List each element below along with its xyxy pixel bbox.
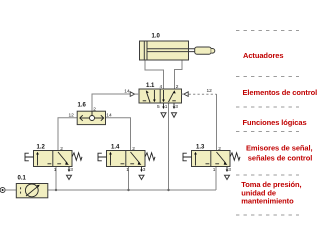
svg-text:1.2: 1.2 — [37, 144, 46, 150]
svg-text:1.1: 1.1 — [146, 83, 155, 89]
svg-text:3: 3 — [143, 167, 146, 173]
svg-text:Elementos de control: Elementos de control — [243, 88, 318, 97]
svg-text:3: 3 — [70, 167, 73, 173]
wire valve 1.4 port 1 down to supply line — [128, 167, 130, 191]
valve 1.3 (3/2 way, pushbutton) — [183, 144, 240, 179]
service unit rect — [16, 184, 48, 198]
wire cylinder left port to valve 1.1 port 4 — [145, 60, 164, 90]
valve 1.1 (5/2 way) — [124, 83, 212, 117]
svg-text:3: 3 — [228, 167, 231, 173]
valve 1.2 (3/2 way, pushbutton) — [25, 144, 82, 179]
right box interior — [169, 92, 175, 102]
svg-text:1.4: 1.4 — [111, 144, 120, 150]
port 3 exhaust — [68, 167, 70, 171]
left box arrow — [37, 154, 39, 166]
left box interior — [146, 92, 150, 103]
red zone labels — [241, 51, 317, 205]
svg-text:Actuadores: Actuadores — [243, 51, 283, 60]
supply line from unit 0.1 — [48, 189, 216, 191]
svg-text:12: 12 — [69, 113, 75, 119]
wire valve 1.6 right port to valve 1.4 port 2 — [105, 118, 131, 151]
svg-text:1: 1 — [126, 167, 129, 173]
svg-text:14: 14 — [106, 113, 112, 119]
wire valve 1.6 left port to valve 1.2 port 2 — [58, 118, 78, 151]
wire valve 1.6 top to pilot 14 of valve 1.1 — [92, 94, 130, 112]
svg-text:14: 14 — [124, 89, 130, 95]
two-pressure valve 1.6 — [69, 103, 112, 125]
svg-text:3: 3 — [175, 104, 178, 110]
svg-text:Emisores de señal,: Emisores de señal, — [246, 144, 313, 153]
valve 1.4 (3/2 way, pushbutton) — [98, 144, 155, 179]
wire cylinder right port to valve 1.1 port 2 — [175, 60, 183, 90]
svg-text:1: 1 — [213, 167, 216, 173]
wire valve 1.2 port 1 down to supply line — [55, 167, 57, 191]
svg-text:mantenimiento: mantenimiento — [241, 197, 294, 206]
svg-text:0.1: 0.1 — [18, 176, 27, 182]
svg-text:1.6: 1.6 — [78, 103, 87, 109]
wire down to valve 1.3 port 2 — [216, 94, 218, 151]
pushbutton actuator — [25, 153, 34, 161]
air supply unit 0.1 — [0, 176, 48, 198]
svg-text:señales de control: señales de control — [248, 154, 312, 163]
svg-text:1: 1 — [165, 104, 168, 110]
svg-text:12: 12 — [207, 88, 213, 94]
svg-text:1.0: 1.0 — [152, 33, 161, 39]
svg-text:1: 1 — [54, 167, 57, 173]
cylinder 1.0 — [140, 33, 215, 60]
svg-text:5: 5 — [157, 104, 160, 110]
svg-text:1.3: 1.3 — [196, 144, 205, 150]
svg-text:Funciones lógicas: Funciones lógicas — [243, 118, 307, 127]
source circle — [0, 188, 5, 193]
spring — [72, 153, 82, 160]
wire valve 1.1 port 1 down to supply line — [168, 104, 170, 191]
right box diagonal — [58, 152, 68, 164]
pilot line dashed from valve 1.1 pilot 12 — [189, 93, 217, 95]
dashed separator lines — [236, 31, 299, 216]
wire valve 1.3 port 1 down to supply line — [215, 167, 217, 191]
junction dots — [55, 189, 57, 191]
